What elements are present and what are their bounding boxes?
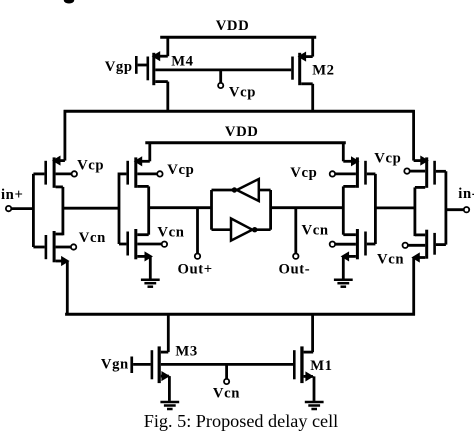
wire M1 drain up to tail rail	[311, 314, 314, 352]
wire inner-right gate vertical	[374, 174, 377, 244]
terminal Vcp (inner-left)	[137, 171, 162, 176]
terminal Vcp (top)	[218, 70, 223, 88]
wire node Out- row (latch to inner-right drain)	[271, 206, 344, 209]
ground (M1)	[305, 402, 324, 409]
svg-text:Vcn: Vcn	[79, 230, 106, 246]
wire M3 source to ground	[168, 376, 171, 401]
label Vcp (top)	[229, 85, 256, 101]
label in+	[1, 187, 23, 203]
inverter U1 (points left)	[237, 179, 259, 201]
wire node A (outer-left drain to inner-left gate)	[63, 207, 119, 210]
label Out+	[178, 261, 213, 277]
wire latch top-left	[212, 189, 235, 192]
wire latch right vertical	[269, 190, 272, 230]
wire outer-left source down to tail rail	[66, 261, 69, 316]
label in-	[458, 186, 474, 202]
wire U2 output to latch right	[255, 228, 271, 231]
svg-text:Vcn: Vcn	[377, 252, 404, 268]
wire M4 drain to M2 gate (node Vcp)	[155, 69, 291, 72]
terminal Vcn (outer-left)	[56, 244, 77, 249]
transistor outer-left NMOS	[33, 231, 68, 265]
label Vcn (inner-left)	[157, 225, 184, 241]
transistor outer-right NMOS	[412, 230, 446, 262]
wire M3 drain to M1 gate (node Vcn)	[161, 363, 293, 366]
wire inner-left drain vertical	[147, 186, 150, 234]
junction dot U1 output	[232, 187, 237, 192]
terminal in+	[6, 206, 34, 211]
wire outer-right source down to tail rail	[412, 258, 415, 316]
svg-text:in-: in-	[458, 186, 474, 202]
transistor M1	[293, 346, 313, 383]
svg-text:M2: M2	[312, 63, 334, 79]
svg-text:in+: in+	[1, 187, 23, 203]
svg-text:M1: M1	[310, 358, 332, 374]
svg-text:M4: M4	[171, 54, 193, 70]
wire in+ gate vertical	[32, 174, 35, 247]
label Vgn	[101, 357, 129, 373]
wire inner-left gate vertical	[118, 173, 121, 245]
label Vcn (outer-right)	[377, 252, 404, 268]
wire M1 source to ground	[313, 376, 316, 401]
label Vgp	[105, 59, 133, 75]
svg-text:VDD: VDD	[225, 124, 259, 140]
label Vcn (outer-left)	[79, 230, 106, 246]
wire node Out+ row (inner-left drain to latch)	[149, 206, 212, 209]
ground (inner-left)	[141, 280, 160, 287]
text fragment (cropped glyph from page above)	[64, 0, 74, 4]
terminal Vcn (outer-right)	[403, 243, 426, 248]
wire inner rail right drop	[342, 142, 345, 162]
junction dot U2 output	[252, 227, 257, 232]
svg-text:Vcn: Vcn	[157, 225, 184, 241]
terminal in-	[446, 207, 469, 212]
svg-text:VDD: VDD	[216, 18, 250, 34]
wire U1 input to latch right	[259, 189, 271, 192]
terminal Out+	[195, 208, 200, 259]
terminal Vgn	[130, 357, 150, 374]
label M4	[171, 54, 193, 70]
transistor M4	[147, 52, 168, 85]
transistor outer-right PMOS	[414, 156, 446, 187]
node VDD (inner rail label)	[225, 124, 259, 140]
wire M3 drain up to tail rail	[167, 315, 170, 353]
svg-text:Vcn: Vcn	[213, 385, 240, 401]
label Vcn (inner-right)	[302, 222, 329, 238]
wire M2 source to VDD rail	[311, 36, 314, 57]
svg-text:Vcn: Vcn	[302, 222, 329, 238]
transistor M2	[291, 52, 313, 85]
wire inner VDD rail	[145, 141, 345, 144]
wire inner-left source to ground	[149, 256, 152, 278]
terminal Vcp (outer-left)	[56, 171, 77, 176]
label Vcp (inner-right)	[290, 165, 317, 181]
caption Fig. 5	[144, 411, 338, 431]
svg-text:Vgn: Vgn	[101, 357, 129, 373]
svg-text:Vcp: Vcp	[290, 165, 317, 181]
wire tail rail	[65, 313, 415, 316]
wire inner-right drain vertical	[342, 186, 345, 234]
transistor inner-left PMOS	[119, 157, 150, 188]
svg-text:Out+: Out+	[178, 261, 213, 277]
svg-text:Out-: Out-	[279, 262, 311, 278]
wire outer-left drain vertical	[62, 187, 65, 235]
wire VDD top rail	[160, 36, 316, 39]
wire latch bottom-left	[212, 228, 232, 231]
wire node B (inner-right gate to outer-right drain)	[375, 206, 415, 209]
wire M2 drain down to mid rail	[311, 84, 314, 113]
wire outer-right drain vertical	[413, 187, 416, 236]
transistor inner-right PMOS	[343, 157, 375, 188]
terminal Vcp (inner-right)	[330, 171, 356, 176]
transistor M3	[151, 346, 169, 383]
node VDD (top rail label)	[216, 18, 250, 34]
transistor inner-right NMOS	[342, 229, 376, 261]
label Vcp (outer-left)	[77, 158, 104, 174]
label Vcp (outer-right)	[374, 150, 401, 166]
wire mid supply rail	[64, 110, 415, 113]
terminal Vcn (inner-right)	[330, 242, 356, 247]
terminal Vcp (outer-right)	[404, 168, 425, 173]
svg-text:Vcp: Vcp	[77, 158, 104, 174]
label M3	[175, 343, 197, 359]
wire mid rail left drop	[64, 110, 67, 161]
svg-text:Fig. 5: Proposed delay cell: Fig. 5: Proposed delay cell	[144, 411, 338, 431]
terminal Out-	[293, 208, 298, 259]
label Out-	[279, 262, 311, 278]
terminal Vcn (inner-left)	[137, 242, 167, 247]
svg-text:Vgp: Vgp	[105, 59, 133, 75]
transistor outer-left PMOS	[33, 156, 65, 187]
svg-text:Vcp: Vcp	[374, 150, 401, 166]
svg-text:M3: M3	[175, 343, 197, 359]
wire M4 source to VDD rail	[166, 36, 169, 56]
svg-text:Vcp: Vcp	[167, 162, 194, 178]
wire M4 drain down to mid rail	[166, 82, 169, 113]
ground (inner-right)	[334, 280, 353, 287]
wire inner rail left drop	[148, 142, 151, 162]
inverter U2 (points right)	[231, 219, 252, 241]
terminal Vcn (bottom)	[224, 364, 229, 384]
label M1	[310, 358, 332, 374]
label Vcn (bottom)	[213, 385, 240, 401]
wire latch left vertical	[210, 190, 213, 230]
wire mid rail right drop	[412, 110, 415, 161]
wire inner-right source to ground	[342, 256, 345, 278]
ground (M3)	[160, 402, 179, 409]
wire in- gate vertical	[444, 171, 447, 244]
label M2	[312, 63, 334, 79]
svg-text:Vcp: Vcp	[229, 85, 256, 101]
transistor inner-left NMOS	[119, 229, 152, 261]
terminal Vgp	[135, 56, 147, 74]
label Vcp (inner-left)	[167, 162, 194, 178]
